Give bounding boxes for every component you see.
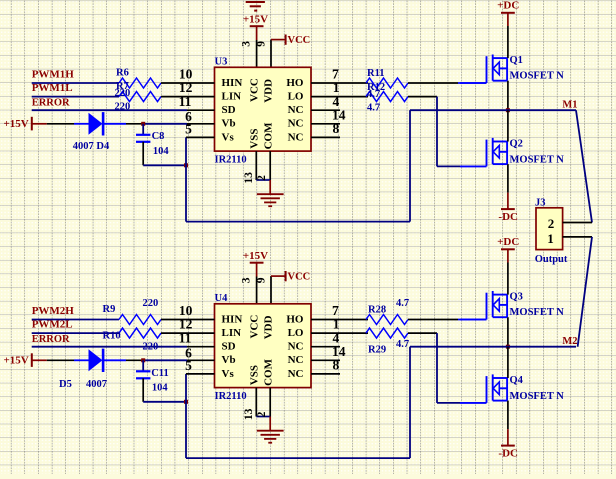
svg-text:ERROR: ERROR (32, 97, 70, 108)
svg-text:220: 220 (115, 101, 131, 112)
svg-text:Vs: Vs (222, 131, 235, 143)
svg-text:4.7: 4.7 (396, 339, 409, 350)
svg-text:VSS: VSS (249, 365, 261, 385)
svg-text:R9: R9 (103, 304, 116, 315)
svg-text:VDD: VDD (263, 315, 275, 339)
svg-text:220: 220 (143, 298, 159, 309)
svg-text:VCC: VCC (288, 272, 311, 283)
svg-text:D5: D5 (59, 379, 72, 390)
svg-text:3: 3 (240, 41, 252, 47)
svg-text:220: 220 (143, 342, 159, 353)
svg-text:C11: C11 (151, 368, 169, 379)
svg-text:Vs: Vs (222, 368, 235, 380)
svg-text:Q2: Q2 (510, 139, 523, 150)
svg-text:VCC: VCC (249, 78, 261, 102)
svg-text:Vb: Vb (222, 118, 236, 130)
svg-text:VDD: VDD (263, 79, 275, 103)
svg-text:MOSFET N: MOSFET N (510, 391, 565, 402)
svg-text:NC: NC (288, 118, 304, 130)
svg-text:R28: R28 (368, 305, 386, 316)
svg-text:PWM1H: PWM1H (32, 69, 75, 81)
svg-text:IR2110: IR2110 (215, 391, 247, 402)
svg-text:+DC: +DC (497, 0, 519, 12)
svg-text:PWM2L: PWM2L (32, 319, 73, 331)
svg-text:SD: SD (222, 104, 236, 116)
svg-text:R11: R11 (367, 68, 385, 79)
svg-text:+15V: +15V (4, 118, 29, 130)
svg-text:Output: Output (535, 254, 568, 265)
svg-text:MOSFET N: MOSFET N (510, 307, 565, 318)
svg-text:Q3: Q3 (510, 292, 523, 303)
svg-text:NC: NC (288, 104, 304, 116)
svg-text:220: 220 (115, 88, 131, 99)
svg-text:2: 2 (256, 175, 268, 181)
svg-text:4.7: 4.7 (396, 298, 409, 309)
svg-text:COM: COM (263, 358, 275, 386)
svg-text:VSS: VSS (249, 129, 261, 149)
svg-text:R10: R10 (103, 331, 121, 342)
svg-text:NC: NC (288, 368, 304, 380)
svg-text:ERROR: ERROR (32, 334, 70, 345)
svg-text:U3: U3 (215, 56, 228, 67)
svg-text:3: 3 (240, 277, 252, 283)
svg-text:+15V: +15V (243, 13, 268, 25)
svg-text:LIN: LIN (222, 327, 242, 339)
svg-text:VCC: VCC (288, 35, 311, 46)
svg-text:M2: M2 (562, 336, 577, 347)
svg-text:4007: 4007 (86, 379, 107, 390)
svg-text:SD: SD (222, 341, 236, 353)
svg-text:104: 104 (153, 146, 170, 157)
svg-text:NC: NC (288, 131, 304, 143)
svg-text:4.7: 4.7 (367, 89, 380, 100)
svg-text:J3: J3 (535, 197, 546, 208)
svg-text:LO: LO (288, 327, 304, 339)
svg-text:Q4: Q4 (510, 375, 524, 386)
svg-text:NC: NC (288, 354, 304, 366)
svg-text:C8: C8 (152, 131, 165, 142)
svg-text:2: 2 (548, 216, 555, 231)
svg-text:9: 9 (255, 277, 267, 283)
svg-text:LO: LO (288, 91, 304, 103)
svg-text:13: 13 (243, 172, 255, 184)
svg-text:HIN: HIN (222, 313, 243, 325)
svg-text:HIN: HIN (222, 77, 243, 89)
svg-text:NC: NC (288, 341, 304, 353)
svg-text:VCC: VCC (249, 315, 261, 339)
svg-text:R29: R29 (368, 345, 386, 356)
svg-text:104: 104 (152, 382, 169, 393)
svg-text:U4: U4 (215, 293, 229, 304)
svg-text:2: 2 (256, 411, 268, 417)
svg-text:4.7: 4.7 (367, 103, 380, 114)
svg-text:M1: M1 (562, 99, 577, 110)
svg-text:MOSFET N: MOSFET N (510, 71, 565, 82)
svg-text:IR2110: IR2110 (215, 154, 247, 165)
svg-text:LIN: LIN (222, 91, 242, 103)
svg-text:COM: COM (263, 122, 275, 150)
svg-text:+DC: +DC (497, 236, 519, 248)
svg-text:-DC: -DC (498, 448, 518, 460)
svg-text:13: 13 (243, 408, 255, 420)
svg-text:+15V: +15V (243, 250, 268, 262)
svg-text:Vb: Vb (222, 354, 236, 366)
svg-text:+15V: +15V (4, 355, 29, 367)
svg-text:1: 1 (547, 231, 554, 246)
svg-text:-DC: -DC (498, 211, 518, 223)
svg-text:4007 D4: 4007 D4 (73, 141, 110, 152)
svg-text:PWM1L: PWM1L (32, 82, 73, 94)
svg-text:Q1: Q1 (510, 55, 523, 66)
svg-text:PWM2H: PWM2H (32, 305, 75, 317)
svg-text:HO: HO (286, 77, 304, 89)
svg-text:MOSFET N: MOSFET N (510, 154, 565, 165)
svg-text:HO: HO (286, 313, 304, 325)
svg-text:R6: R6 (116, 67, 129, 78)
svg-text:9: 9 (255, 41, 267, 47)
